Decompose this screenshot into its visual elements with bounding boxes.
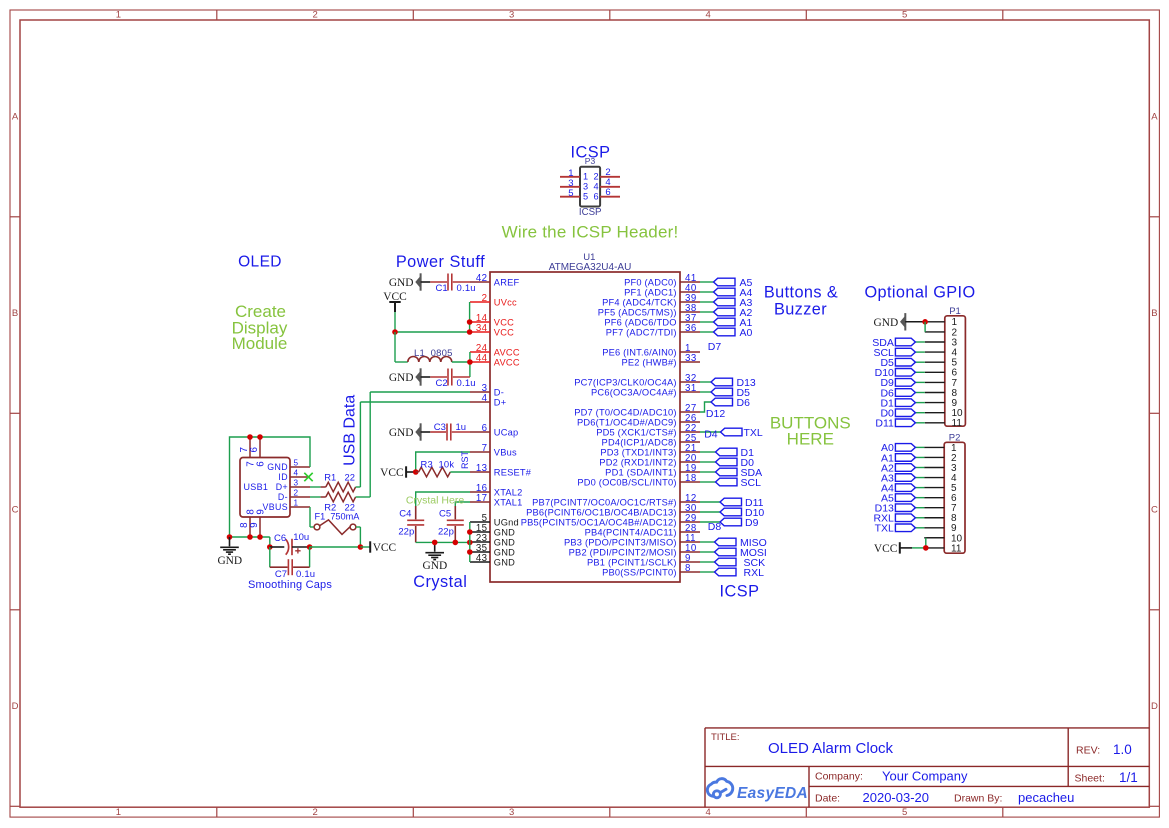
U1 pin 16 XTAL2 bbox=[470, 491, 490, 493]
wire to flag A2 bbox=[700, 311, 714, 313]
wire to flag D9 bbox=[700, 521, 720, 523]
P1 pin 3 bbox=[925, 341, 945, 343]
capacitor C4 22p bbox=[415, 506, 417, 519]
svg-text:4: 4 bbox=[482, 393, 488, 404]
U1 pin 42 AREF bbox=[470, 281, 490, 283]
svg-text:6: 6 bbox=[249, 447, 260, 453]
svg-text:PD7 (T0/OC4D/ADC10): PD7 (T0/OC4D/ADC10) bbox=[574, 407, 676, 417]
svg-text:Wire the ICSP Header!: Wire the ICSP Header! bbox=[502, 222, 679, 241]
svg-text:0.1u: 0.1u bbox=[457, 378, 476, 389]
svg-text:6: 6 bbox=[594, 192, 599, 202]
svg-text:10u: 10u bbox=[293, 532, 309, 543]
connector P2 body bbox=[944, 442, 965, 553]
U1 pin 4 D+ bbox=[470, 401, 490, 403]
svg-text:PF1 (ADC1): PF1 (ADC1) bbox=[624, 287, 677, 297]
svg-text:PB7(PCINT7/OC0A/OC1C/RTS#): PB7(PCINT7/OC0A/OC1C/RTS#) bbox=[532, 497, 677, 507]
svg-text:1/1: 1/1 bbox=[1119, 770, 1138, 785]
svg-text:D-: D- bbox=[278, 492, 288, 502]
wire to flag A5 bbox=[700, 281, 714, 283]
USB1 pin 5 GND bbox=[290, 466, 310, 468]
wire to flag MOSI bbox=[700, 551, 715, 553]
svg-text:43: 43 bbox=[476, 553, 488, 564]
U1 pin 8 PB0(SS/PCINT0) bbox=[680, 571, 700, 573]
capacitor C5 22p bbox=[454, 506, 456, 519]
smoothing caps rail corner bbox=[269, 537, 271, 547]
svg-text:TITLE:: TITLE: bbox=[711, 732, 740, 743]
wire P2 pin10 to VCC bbox=[927, 537, 945, 539]
title block bbox=[705, 728, 1149, 807]
svg-text:Crystal Here: Crystal Here bbox=[406, 495, 465, 507]
svg-text:VBus: VBus bbox=[494, 447, 517, 457]
net flag D10 bbox=[720, 508, 742, 516]
wire to flag D5 bbox=[700, 391, 711, 393]
net flag D0 to P1 pin 10 bbox=[915, 412, 924, 414]
wire VBus to VCC rail bbox=[416, 452, 470, 472]
svg-text:Buttons &: Buttons & bbox=[764, 284, 838, 302]
svg-text:5: 5 bbox=[583, 192, 588, 202]
net flag D10 to P1 pin 6 bbox=[915, 371, 924, 373]
wire VCC to U1 VCC pins bbox=[394, 312, 396, 332]
svg-text:Buzzer: Buzzer bbox=[774, 301, 827, 319]
wire to flag SCK bbox=[700, 561, 715, 563]
svg-text:2: 2 bbox=[482, 293, 488, 304]
svg-text:D+: D+ bbox=[276, 482, 288, 492]
P2 pin 6 bbox=[924, 497, 944, 499]
svg-text:UVcc: UVcc bbox=[494, 297, 517, 307]
svg-text:VCC: VCC bbox=[874, 543, 897, 555]
svg-text:9: 9 bbox=[256, 509, 267, 514]
svg-text:18: 18 bbox=[685, 473, 697, 484]
connector P3 ICSP header bbox=[580, 167, 600, 207]
P1 pin 6 bbox=[925, 371, 945, 373]
wire GND to P1 pin2 bbox=[924, 322, 926, 332]
wire XTAL2 to C4 bbox=[416, 492, 470, 506]
no-connect X on ID pin bbox=[304, 473, 312, 481]
svg-text:GND: GND bbox=[874, 317, 899, 329]
wire to flag MISO bbox=[700, 541, 715, 543]
U1 pin 26 PD6(T1/OC4D#/ADC9) bbox=[680, 421, 700, 423]
svg-text:HERE: HERE bbox=[787, 430, 834, 449]
net flag A1 to P2 pin 2 bbox=[915, 456, 924, 458]
svg-text:Smoothing Caps: Smoothing Caps bbox=[248, 579, 332, 591]
svg-text:Company:: Company: bbox=[815, 770, 863, 782]
U1 pin 37 PF6 (ADC6/TDO bbox=[680, 321, 700, 323]
svg-text:44: 44 bbox=[476, 353, 488, 364]
wire to flag D10 bbox=[700, 511, 720, 513]
net flag MOSI bbox=[715, 548, 737, 556]
svg-text:7: 7 bbox=[482, 443, 488, 454]
svg-text:A0: A0 bbox=[740, 327, 753, 339]
USB ground rail bbox=[230, 536, 270, 538]
svg-text:D+: D+ bbox=[494, 397, 507, 407]
net flag A3 to P2 pin 4 bbox=[915, 477, 924, 479]
P1 pin 11 bbox=[925, 422, 945, 424]
svg-text:4: 4 bbox=[705, 807, 710, 818]
svg-text:3: 3 bbox=[294, 479, 299, 488]
wire to flag A3 bbox=[700, 301, 714, 303]
net flag D5 bbox=[711, 388, 733, 396]
net flag A2 to P2 pin 3 bbox=[915, 467, 924, 469]
svg-text:PB3 (PDO/PCINT3/MISO): PB3 (PDO/PCINT3/MISO) bbox=[564, 537, 677, 547]
svg-text:D12: D12 bbox=[706, 408, 725, 420]
svg-text:GND: GND bbox=[389, 427, 414, 439]
U1 pin 22 PD5 (XCK1/CTS#) bbox=[680, 431, 700, 433]
svg-text:Power Stuff: Power Stuff bbox=[396, 253, 485, 271]
wire XTAL1 to C5 bbox=[455, 502, 470, 506]
svg-text:0.1u: 0.1u bbox=[296, 569, 315, 580]
U1 pin 10 PB2 (PDI/PCINT2/MOSI) bbox=[680, 551, 700, 553]
net flag D13 bbox=[711, 378, 733, 386]
svg-text:1: 1 bbox=[116, 9, 121, 20]
U1 pin 7 VBus bbox=[470, 451, 490, 453]
svg-text:1: 1 bbox=[294, 499, 299, 508]
wire to flag SCL bbox=[700, 481, 716, 483]
U1 pin 38 PF5 (ADC5/TMS)) bbox=[680, 311, 700, 313]
U1 pin 6 UCap bbox=[470, 431, 490, 433]
connector USB1 body bbox=[240, 458, 290, 518]
P2 pin 7 bbox=[924, 507, 944, 509]
svg-text:EasyEDA: EasyEDA bbox=[737, 785, 808, 802]
svg-text:Crystal: Crystal bbox=[413, 573, 467, 591]
svg-text:C6: C6 bbox=[274, 533, 286, 544]
svg-text:A: A bbox=[1151, 111, 1158, 122]
svg-text:2: 2 bbox=[294, 489, 299, 498]
svg-text:5: 5 bbox=[568, 188, 573, 199]
ground symbol crystal bbox=[434, 542, 436, 551]
resistor R2 22 bbox=[310, 496, 321, 498]
capacitor C7 0.1u bbox=[269, 547, 271, 567]
net flag A5 bbox=[714, 278, 736, 286]
resistor R1 22 bbox=[310, 486, 321, 488]
svg-text:2020-03-20: 2020-03-20 bbox=[863, 790, 930, 805]
P2 pin 4 bbox=[924, 477, 944, 479]
svg-text:2: 2 bbox=[594, 172, 599, 182]
net flag SCK bbox=[715, 558, 737, 566]
svg-text:5: 5 bbox=[902, 807, 907, 818]
net flag D1 to P1 pin 9 bbox=[915, 402, 924, 404]
P1 pin 4 bbox=[925, 351, 945, 353]
svg-text:D6: D6 bbox=[737, 397, 751, 409]
svg-text:2: 2 bbox=[312, 807, 317, 818]
svg-text:PD1 (SDA/INT1): PD1 (SDA/INT1) bbox=[605, 467, 677, 477]
svg-text:Module: Module bbox=[232, 334, 288, 353]
U1 pin 27 PD7 (T0/OC4D/ADC10) bbox=[680, 411, 700, 413]
U1 pin 21 PD3 (TXD1/INT3) bbox=[680, 451, 700, 453]
svg-text:5: 5 bbox=[294, 459, 299, 468]
svg-text:PF6 (ADC6/TDO: PF6 (ADC6/TDO bbox=[604, 317, 676, 327]
wire D+ to U1 bbox=[360, 401, 470, 403]
P2 pin 1 bbox=[924, 446, 944, 448]
svg-text:Date:: Date: bbox=[815, 793, 840, 805]
svg-text:4: 4 bbox=[594, 182, 599, 192]
svg-text:6: 6 bbox=[482, 423, 488, 434]
svg-text:A: A bbox=[12, 111, 19, 122]
U1 pin 44 AVCC bbox=[470, 361, 490, 363]
U1 pin 28 PB4(PCINT4/ADC11) bbox=[680, 531, 700, 533]
svg-text:USB1: USB1 bbox=[244, 482, 269, 492]
svg-text:RXL: RXL bbox=[744, 567, 765, 579]
U1 pin 32 PC7(ICP3/CLK0/OC4A) bbox=[680, 381, 700, 383]
svg-text:R1: R1 bbox=[324, 471, 336, 482]
svg-text:PD5 (XCK1/CTS#): PD5 (XCK1/CTS#) bbox=[596, 427, 677, 437]
svg-text:1.0: 1.0 bbox=[1113, 742, 1132, 757]
ground symbol USB bbox=[229, 537, 231, 546]
U1 pin 25 PD4(ICP1/ADC8) bbox=[680, 441, 700, 443]
wire U1 GND pins vertical bbox=[469, 522, 471, 562]
U1 pin 11 PB3 (PDO/PCINT3/MISO) bbox=[680, 541, 700, 543]
net flag A4 to P2 pin 5 bbox=[915, 487, 924, 489]
USB1 pin 7 top bbox=[249, 437, 251, 458]
wire to flag SDA bbox=[700, 471, 716, 473]
net flag TXL bbox=[721, 428, 743, 436]
svg-text:GND: GND bbox=[494, 547, 515, 557]
svg-text:3: 3 bbox=[509, 807, 514, 818]
svg-text:C5: C5 bbox=[439, 508, 451, 519]
svg-text:3: 3 bbox=[583, 182, 588, 192]
wire C6 to VCC bbox=[310, 546, 361, 548]
USB1 pin 1 VBUS bbox=[290, 506, 310, 508]
svg-text:PE2 (HWB#): PE2 (HWB#) bbox=[621, 357, 676, 367]
svg-text:6: 6 bbox=[256, 461, 267, 467]
USB1 pin 4 ID bbox=[290, 476, 310, 478]
net flag A4 bbox=[714, 288, 736, 296]
svg-text:Optional GPIO: Optional GPIO bbox=[864, 284, 975, 302]
svg-text:P3: P3 bbox=[585, 156, 596, 166]
svg-text:RST: RST bbox=[460, 450, 470, 469]
svg-text:42: 42 bbox=[476, 273, 488, 284]
svg-text:ICSP: ICSP bbox=[579, 207, 602, 218]
svg-text:31: 31 bbox=[685, 383, 697, 394]
U1 pin 36 PF7 (ADC7/TDI) bbox=[680, 331, 700, 333]
svg-text:C4: C4 bbox=[399, 508, 411, 519]
U1 pin 33 PE2 (HWB#) bbox=[680, 361, 700, 363]
svg-text:REV:: REV: bbox=[1076, 744, 1100, 756]
svg-text:3: 3 bbox=[509, 9, 514, 20]
svg-text:P1: P1 bbox=[949, 306, 961, 317]
svg-text:AREF: AREF bbox=[494, 277, 520, 287]
svg-text:AVCC: AVCC bbox=[494, 357, 520, 367]
svg-text:PB4(PCINT4/ADC11): PB4(PCINT4/ADC11) bbox=[585, 527, 677, 537]
svg-text:13: 13 bbox=[476, 463, 488, 474]
svg-text:R3 10k: R3 10k bbox=[421, 459, 455, 470]
svg-text:B: B bbox=[1151, 308, 1157, 319]
connector P1 body bbox=[945, 316, 966, 426]
svg-text:11: 11 bbox=[952, 418, 963, 429]
svg-text:C1: C1 bbox=[436, 283, 448, 294]
net flag RXL to P2 pin 8 bbox=[915, 517, 924, 519]
USB1 pin 8 bottom bbox=[249, 517, 251, 537]
svg-text:C3: C3 bbox=[434, 422, 446, 433]
svg-text:TXL: TXL bbox=[744, 427, 763, 439]
svg-text:UCap: UCap bbox=[494, 427, 519, 437]
wire fuse to VCC node bbox=[356, 526, 361, 528]
U1 pin 15 GND bbox=[470, 531, 490, 533]
net flag A3 bbox=[714, 298, 736, 306]
net flag A2 bbox=[714, 308, 736, 316]
P1 pin 9 bbox=[925, 402, 945, 404]
net flag A0 bbox=[714, 328, 736, 336]
capacitor C6 10u polarized bbox=[270, 546, 285, 548]
svg-text:ID: ID bbox=[278, 472, 288, 482]
crystal ground rail bbox=[416, 541, 470, 543]
svg-text:4: 4 bbox=[705, 9, 710, 20]
P1 pin 1 bbox=[925, 321, 945, 323]
svg-text:PB5(PCINT5/OC1A/OC4B#/ADC12): PB5(PCINT5/OC1A/OC4B#/ADC12) bbox=[521, 517, 677, 527]
U1 pin 13 RESET# bbox=[470, 471, 490, 473]
svg-text:C2: C2 bbox=[436, 378, 448, 389]
U1 pin 2 UVcc bbox=[470, 301, 490, 303]
net flag D6 bbox=[711, 398, 733, 406]
wire VBUS down to fuse bbox=[309, 507, 311, 527]
svg-text:OLED Alarm Clock: OLED Alarm Clock bbox=[768, 740, 894, 757]
P1 pin 2 bbox=[925, 331, 945, 333]
P2 pin 5 bbox=[924, 487, 944, 489]
svg-text:Your Company: Your Company bbox=[882, 768, 968, 783]
svg-text:D9: D9 bbox=[745, 517, 759, 529]
net flag SCL to P1 pin 4 bbox=[915, 351, 924, 353]
net flag MISO bbox=[715, 538, 737, 546]
svg-text:TXL: TXL bbox=[875, 523, 894, 535]
U1 pin 43 GND bbox=[470, 561, 490, 563]
net flag TXL to P2 pin 9 bbox=[915, 527, 924, 529]
wire to flag A1 bbox=[700, 321, 714, 323]
U1 pin 14 VCC bbox=[470, 321, 490, 323]
USB1 pin 9 bottom bbox=[259, 517, 261, 537]
svg-text:GND: GND bbox=[494, 537, 515, 547]
wire pin27 to flag D6 (bend) bbox=[700, 402, 711, 412]
svg-text:PB6(PCINT6/OC1B/OC4B/ADC13): PB6(PCINT6/OC1B/OC4B/ADC13) bbox=[526, 507, 677, 517]
U1 pin 18 PD0 (OC0B/SCL/INT0) bbox=[680, 481, 700, 483]
svg-text:5: 5 bbox=[902, 9, 907, 20]
net flag RXL bbox=[715, 568, 737, 576]
svg-text:GND: GND bbox=[494, 527, 515, 537]
wire L1 to AVCC pins bbox=[452, 361, 470, 363]
net flag D9 to P1 pin 7 bbox=[915, 381, 924, 383]
svg-text:D-: D- bbox=[494, 387, 504, 397]
svg-text:34: 34 bbox=[476, 323, 488, 334]
svg-text:OLED: OLED bbox=[238, 253, 282, 270]
P2 pin 11 bbox=[924, 547, 944, 549]
net flag A0 to P2 pin 1 bbox=[915, 446, 924, 448]
svg-text:PD2 (RXD1/INT2): PD2 (RXD1/INT2) bbox=[599, 457, 676, 467]
U1 pin 39 PF4 (ADC4/TCK) bbox=[680, 301, 700, 303]
svg-text:17: 17 bbox=[476, 493, 488, 504]
svg-text:AVCC: AVCC bbox=[494, 347, 520, 357]
capacitor C1 0.1u bbox=[421, 281, 431, 283]
svg-text:GND: GND bbox=[423, 560, 448, 572]
wire to flag A4 bbox=[700, 291, 714, 293]
U1 pin 29 PB5(PCINT5/OC1A/OC4B#/ADC12) bbox=[680, 521, 700, 523]
wire R2 to D- bbox=[369, 392, 371, 497]
svg-text:33: 33 bbox=[685, 353, 697, 364]
P2 pin 3 bbox=[924, 467, 944, 469]
svg-text:GND: GND bbox=[389, 372, 414, 384]
wire R1 to D+ bbox=[359, 402, 361, 487]
net flag D1 bbox=[716, 448, 738, 456]
svg-text:PF0 (ADC0): PF0 (ADC0) bbox=[624, 277, 677, 287]
wire to flag D0 bbox=[700, 461, 716, 463]
svg-text:VCC: VCC bbox=[494, 327, 514, 337]
net flag D9 bbox=[720, 518, 742, 526]
capacitor C2 0.1u bbox=[421, 376, 431, 378]
net flag D11 bbox=[720, 498, 742, 506]
svg-text:PB2 (PDI/PCINT2/MOSI): PB2 (PDI/PCINT2/MOSI) bbox=[569, 547, 677, 557]
svg-text:P2: P2 bbox=[949, 432, 961, 443]
wire to flag D11 bbox=[700, 501, 720, 503]
svg-text:GND: GND bbox=[389, 277, 414, 289]
IC U1 ATMEGA32U4-AU body bbox=[490, 272, 680, 582]
U1 pin 24 AVCC bbox=[470, 351, 490, 353]
net flag SDA bbox=[716, 468, 738, 476]
U1 pin 41 PF0 (ADC0) bbox=[680, 281, 700, 283]
net flag A1 bbox=[714, 318, 736, 326]
svg-text:0.1u: 0.1u bbox=[457, 283, 476, 294]
svg-text:PD3 (TXD1/INT3): PD3 (TXD1/INT3) bbox=[600, 447, 676, 457]
resistor R3 10k bbox=[416, 471, 419, 473]
U1 pin 30 PB6(PCINT6/OC1B/OC4B/ADC13) bbox=[680, 511, 700, 513]
svg-text:D: D bbox=[1151, 701, 1158, 712]
svg-text:6: 6 bbox=[605, 187, 610, 198]
svg-text:Drawn By:: Drawn By: bbox=[954, 793, 1002, 805]
svg-text:PC6(OC3A/OC4A#): PC6(OC3A/OC4A#) bbox=[591, 387, 677, 397]
P3 pin 5 wire bbox=[560, 196, 580, 198]
wire to flag A0 bbox=[700, 331, 714, 333]
net flag D13 to P2 pin 7 bbox=[915, 507, 924, 509]
svg-text:VCC: VCC bbox=[380, 467, 403, 479]
svg-text:D7: D7 bbox=[708, 341, 722, 353]
svg-text:PD0 (OC0B/SCL/INT0): PD0 (OC0B/SCL/INT0) bbox=[577, 477, 676, 487]
USB1 pin 2 D- bbox=[290, 496, 310, 498]
svg-text:C: C bbox=[12, 505, 19, 516]
net flag D0 bbox=[716, 458, 738, 466]
net flag A5 to P2 pin 6 bbox=[915, 497, 924, 499]
U1 pin 23 GND bbox=[470, 541, 490, 543]
wire to flag TXL bbox=[700, 431, 721, 433]
svg-text:UGnd: UGnd bbox=[494, 517, 519, 527]
svg-text:F1 750mA: F1 750mA bbox=[315, 512, 361, 522]
net flag D11 to P1 pin 11 bbox=[915, 422, 924, 424]
P3 pin 4 wire bbox=[600, 186, 620, 188]
svg-text:GND: GND bbox=[217, 555, 242, 567]
svg-text:22p: 22p bbox=[398, 527, 414, 538]
U1 pin 3 D- bbox=[470, 391, 490, 393]
svg-text:GND: GND bbox=[267, 462, 288, 472]
svg-text:SCL: SCL bbox=[741, 477, 762, 489]
P2 pin 2 bbox=[924, 456, 944, 458]
U1 pin 17 XTAL1 bbox=[470, 501, 490, 503]
svg-text:D4: D4 bbox=[704, 428, 718, 440]
svg-text:XTAL1: XTAL1 bbox=[494, 497, 523, 507]
P3 pin 6 wire bbox=[600, 196, 620, 198]
U1 pin 35 GND bbox=[470, 551, 490, 553]
svg-text:C7: C7 bbox=[275, 569, 287, 580]
wire to flag D13 bbox=[700, 381, 711, 383]
U1 pin 5 UGnd bbox=[470, 521, 490, 523]
svg-text:22: 22 bbox=[345, 471, 355, 482]
svg-text:USB Data: USB Data bbox=[342, 395, 359, 466]
P3 pin 1 wire bbox=[560, 176, 580, 178]
USB1 pin 3 D+ bbox=[290, 486, 310, 488]
junction dots VCC rail bbox=[392, 329, 398, 335]
svg-text:PD4(ICP1/ADC8): PD4(ICP1/ADC8) bbox=[602, 437, 677, 447]
svg-text:1: 1 bbox=[583, 172, 588, 182]
P2 pin 9 bbox=[924, 527, 944, 529]
svg-text:9: 9 bbox=[249, 522, 260, 527]
U1 pin 1 PE6 (INT.6/AIN0) bbox=[680, 351, 700, 353]
svg-text:D8: D8 bbox=[708, 521, 722, 533]
P1 pin 7 bbox=[925, 381, 945, 383]
svg-text:PD6(T1/OC4D#/ADC9): PD6(T1/OC4D#/ADC9) bbox=[577, 417, 677, 427]
